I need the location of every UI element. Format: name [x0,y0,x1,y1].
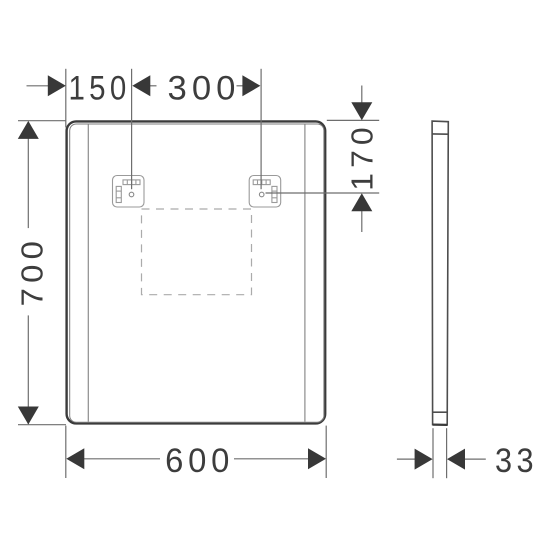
svg-text:150: 150 [69,69,131,107]
svg-text:33: 33 [495,442,538,480]
svg-text:170: 170 [345,122,380,191]
svg-text:600: 600 [165,442,234,480]
svg-text:700: 700 [15,236,50,307]
svg-text:300: 300 [168,69,241,107]
